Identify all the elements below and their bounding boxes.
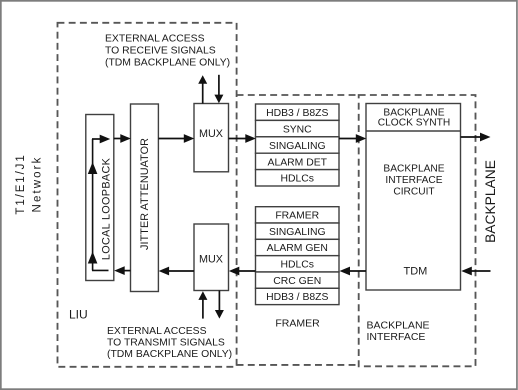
label: T1/E1/J1 Network (left, rotated)	[15, 153, 44, 214]
svg-text:T1/E1/J1: T1/E1/J1	[15, 153, 27, 214]
svg-text:INTERFACE: INTERFACE	[367, 331, 426, 343]
wire: loopback internal top, to block edge	[92, 135, 110, 144]
wire: framer stack to backplane interface circuit	[339, 134, 366, 143]
svg-text:ALARM GEN: ALARM GEN	[267, 243, 328, 254]
block: JITTER ATTENUATOR	[131, 104, 159, 292]
svg-text:BACKPLANE: BACKPLANE	[367, 320, 430, 332]
framer rx block: SINGALING	[256, 137, 340, 153]
BACKPLANE INTERFACE dashed region	[359, 95, 476, 366]
wire: framer stack to MUX (transmit)	[229, 267, 256, 276]
svg-text:TO RECEIVE SIGNALS: TO RECEIVE SIGNALS	[105, 46, 216, 57]
svg-text:Network: Network	[32, 156, 44, 213]
svg-text:(TDM BACKPLANE ONLY): (TDM BACKPLANE ONLY)	[107, 349, 232, 360]
wire: JITTER ATTENUATOR to MUX (receive)	[158, 134, 194, 143]
wire: backplane to TDM	[461, 267, 490, 276]
framer rx block: ALARM DET	[256, 153, 340, 169]
divider: backplane clock synth section	[366, 130, 461, 132]
arrowhead: loopback path up (upper)	[88, 162, 98, 174]
arrowhead: loopback path up (lower)	[88, 252, 98, 264]
svg-text:SYNC: SYNC	[283, 125, 312, 136]
caption: EXTERNAL ACCESS TO TRANSMIT SIGNALS (TDM BACKPLANE ONLY)	[107, 326, 232, 360]
framer rx block: HDLCs	[256, 170, 340, 186]
wire: loopback internal bottom stub	[92, 269, 109, 271]
arrow: receive MUX external access in (down)	[214, 75, 223, 103]
block: LOCAL LOOPBACK	[86, 115, 114, 281]
svg-text:EXTERNAL ACCESS: EXTERNAL ACCESS	[107, 326, 207, 337]
wire: TDM to framer transmit stack	[340, 267, 367, 276]
svg-text:FRAMER: FRAMER	[275, 317, 320, 329]
label: BACKPLANE INTERFACE	[367, 320, 430, 344]
svg-text:ALARM DET: ALARM DET	[268, 157, 328, 168]
framer tx block: HDLCs	[256, 256, 340, 272]
framer tx block: ALARM GEN	[256, 239, 340, 255]
framer rx block: SYNC	[256, 120, 340, 136]
svg-text:JITTER ATTENUATOR: JITTER ATTENUATOR	[139, 138, 151, 250]
svg-text:HDLCs: HDLCs	[281, 260, 315, 271]
svg-text:MUX: MUX	[199, 254, 223, 266]
svg-text:INTERFACE: INTERFACE	[385, 175, 442, 186]
label: BACKPLANE INTERFACE CIRCUIT	[383, 164, 444, 198]
svg-text:CLOCK SYNTH: CLOCK SYNTH	[378, 118, 450, 129]
framer tx block: CRC GEN	[256, 272, 340, 288]
svg-text:HDLCs: HDLCs	[281, 174, 315, 185]
framer tx block: FRAMER	[256, 207, 340, 223]
caption: EXTERNAL ACCESS TO RECEIVE SIGNALS (TDM BACKPLANE ONLY)	[105, 33, 230, 68]
wire: local loopback vertical path	[92, 139, 94, 270]
wire: MUX to framer receive stack	[229, 134, 256, 143]
wire: LOCAL LOOPBACK to JITTER ATTENUATOR	[114, 134, 131, 143]
FRAMER dashed region (shares left edge with LIU, right edge with backplane region)	[237, 95, 359, 365]
arrow: transmit MUX external access in (up)	[198, 291, 207, 318]
label: BACKPLANE CLOCK SYNTH	[378, 108, 450, 129]
block: MUX (transmit)	[194, 224, 229, 291]
svg-text:SINGALING: SINGALING	[269, 141, 326, 152]
arrow: transmit MUX external access out (down)	[215, 291, 224, 319]
svg-text:(TDM BACKPLANE ONLY): (TDM BACKPLANE ONLY)	[105, 58, 230, 69]
LIU dashed region	[58, 23, 237, 367]
framer rx block: HDB3 / B8ZS	[256, 104, 340, 120]
block: BACKPLANE INTERFACE CIRCUIT	[366, 104, 461, 291]
svg-text:BACKPLANE: BACKPLANE	[483, 160, 498, 243]
arrow: receive MUX external access out (up)	[198, 75, 207, 103]
svg-text:LOCAL LOOPBACK: LOCAL LOOPBACK	[100, 157, 112, 260]
block: MUX (receive)	[194, 104, 229, 172]
svg-text:FRAMER: FRAMER	[275, 211, 319, 222]
wire: JITTER ATTENUATOR to LOCAL LOOPBACK	[114, 266, 130, 275]
wire: backplane interface circuit to backplane	[461, 133, 491, 142]
svg-text:SINGALING: SINGALING	[269, 227, 326, 238]
svg-text:TO TRANSMIT SIGNALS: TO TRANSMIT SIGNALS	[107, 338, 225, 349]
svg-text:BACKPLANE: BACKPLANE	[383, 164, 444, 175]
svg-text:LIU: LIU	[69, 308, 88, 322]
svg-text:EXTERNAL ACCESS: EXTERNAL ACCESS	[105, 33, 205, 44]
svg-text:CRC GEN: CRC GEN	[273, 276, 321, 287]
svg-text:HDB3 / B8ZS: HDB3 / B8ZS	[266, 292, 328, 303]
svg-text:CIRCUIT: CIRCUIT	[393, 187, 434, 198]
framer tx block: SINGALING	[256, 223, 340, 239]
wire: MUX to JITTER ATTENUATOR (transmit)	[159, 267, 194, 276]
svg-text:TDM: TDM	[403, 266, 427, 278]
svg-text:MUX: MUX	[199, 128, 223, 140]
svg-text:HDB3 / B8ZS: HDB3 / B8ZS	[266, 108, 328, 119]
framer tx block: HDB3 / B8ZS	[256, 288, 340, 304]
